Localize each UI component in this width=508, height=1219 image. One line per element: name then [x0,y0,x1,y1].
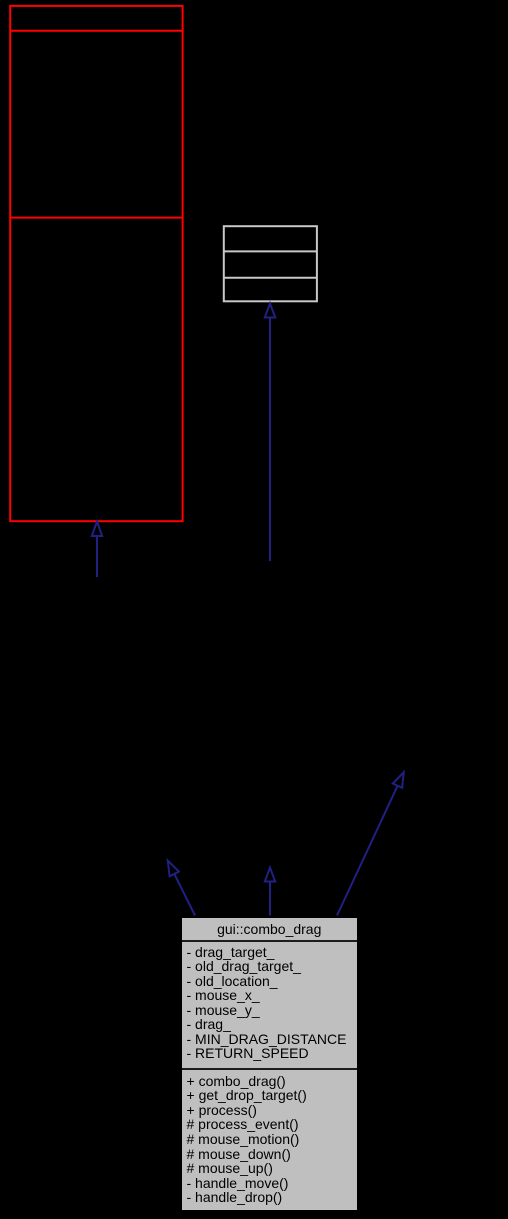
inheritance arrow to red box [92,522,102,578]
inheritance arrow up-right from class box [337,772,404,915]
class title [182,918,357,942]
truncated class node (red box) [10,6,182,521]
small class node (gray box) [224,226,317,301]
inheritance arrow to gray box (long vertical) [265,304,275,562]
attributes [182,942,357,1070]
class node gui::combo_drag [182,918,357,1210]
inheritance arrow up-left from class box [168,861,195,916]
inheritance arrow up-middle from class box [265,868,275,916]
methods [182,1070,357,1210]
